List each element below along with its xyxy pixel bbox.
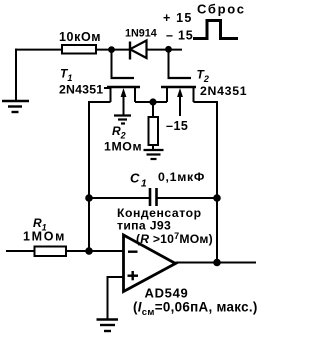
resistor R 10кОм bbox=[62, 45, 96, 54]
diode D1 1N914 bbox=[130, 41, 147, 60]
transistor T1 2N4351 bbox=[107, 78, 140, 115]
label dash pointer to T1 bbox=[104, 87, 110, 89]
svg-text:Сброс: Сброс bbox=[197, 2, 246, 17]
wire: T2 gate lead bbox=[168, 49, 170, 77]
svg-text:1МОм: 1МОм bbox=[23, 230, 66, 244]
ground (op-amp + input) bbox=[97, 320, 119, 332]
label 2N4351 (T1) bbox=[59, 83, 103, 97]
label 1МОм (R1) bbox=[23, 230, 66, 244]
label +15 bbox=[163, 11, 192, 25]
wire: input bbox=[6, 250, 35, 252]
note: типа J93 bbox=[117, 219, 171, 233]
svg-text:2N4351: 2N4351 bbox=[200, 84, 247, 98]
svg-text:– 15: – 15 bbox=[166, 29, 194, 43]
label C1 bbox=[130, 171, 147, 190]
note: (R>10^7 МОм) bbox=[136, 231, 213, 246]
label AD549 bbox=[145, 286, 189, 301]
svg-text:типа J93: типа J93 bbox=[117, 219, 171, 233]
node: T1 drain / T2 source / R2 top bbox=[149, 98, 156, 105]
wire: T1 gate lead bbox=[111, 50, 113, 77]
label R1 bbox=[33, 216, 47, 233]
node: T2 gate junction bbox=[165, 46, 172, 53]
svg-text:2N4351: 2N4351 bbox=[59, 83, 103, 97]
svg-text:1N914: 1N914 bbox=[125, 28, 157, 40]
ground (top left) bbox=[2, 101, 29, 112]
resistor R2 1МОм bbox=[149, 102, 159, 150]
wire: left drop to ground bbox=[15, 49, 17, 100]
wire: right rail bbox=[216, 101, 218, 263]
wire: node to C1 left plate bbox=[89, 197, 149, 199]
wire: T2 drain to right rail bbox=[194, 101, 218, 103]
wire: left rail (summing node) bbox=[88, 101, 90, 251]
svg-text:(R >107МОм): (R >107МОм) bbox=[136, 231, 213, 246]
svg-text:(Iсм=0,06пА, макс.): (Iсм=0,06пА, макс.) bbox=[133, 300, 258, 318]
svg-text:T1: T1 bbox=[60, 67, 72, 84]
wire: R1 to inverting input bbox=[66, 250, 124, 252]
wire: non-inverting input bbox=[108, 277, 124, 319]
svg-text:+ 15: + 15 bbox=[163, 11, 192, 25]
resistor R1 1МОм bbox=[35, 247, 67, 257]
value label 1N914 bbox=[125, 28, 157, 40]
node: T1 gate junction bbox=[108, 46, 115, 53]
value label 10кОм bbox=[59, 30, 101, 44]
ground (below R2) bbox=[144, 150, 164, 159]
wire: output bbox=[176, 262, 257, 264]
label Сброс bbox=[197, 2, 246, 17]
svg-text:–15: –15 bbox=[166, 119, 188, 133]
node: C1 left junction bbox=[85, 194, 93, 202]
wire: C1 right plate to right rail bbox=[157, 197, 218, 199]
label R2 bbox=[112, 124, 126, 141]
svg-text:C1: C1 bbox=[130, 171, 147, 190]
svg-text:T2: T2 bbox=[197, 68, 209, 85]
svg-text:0,1мкФ: 0,1мкФ bbox=[158, 170, 205, 184]
wire: diode to reset line bbox=[147, 49, 183, 51]
wire: T1 drain to node bbox=[135, 101, 153, 103]
svg-text:1МОм: 1МОм bbox=[104, 140, 142, 154]
node: output / feedback junction bbox=[213, 259, 221, 267]
svg-text:AD549: AD549 bbox=[145, 286, 189, 301]
svg-text:10кОм: 10кОм bbox=[59, 30, 101, 44]
label T2 bbox=[197, 68, 209, 85]
wire: resistor to diode bbox=[96, 49, 130, 51]
label -15 (T2 substrate) bbox=[166, 119, 188, 133]
transistor T2 2N4351 bbox=[161, 78, 196, 116]
wire: input to 10k resistor bbox=[15, 49, 62, 51]
op-amp U1 AD549 bbox=[124, 235, 176, 292]
value label 0,1мкФ bbox=[158, 170, 205, 184]
label T1 bbox=[60, 67, 72, 84]
svg-text:R2: R2 bbox=[112, 124, 126, 141]
label -15 (pulse low level) bbox=[166, 29, 194, 43]
ground (T1 substrate) bbox=[114, 116, 131, 124]
capacitor C1 0,1мкФ bbox=[150, 188, 157, 206]
label 1МОм (R2) bbox=[104, 140, 142, 154]
label Iсм spec bbox=[133, 300, 258, 318]
node: inverting input junction bbox=[85, 247, 93, 255]
wire: node to T2 source bbox=[153, 101, 167, 103]
node: C1 right junction bbox=[213, 194, 221, 202]
wire: T1 source to left rail bbox=[89, 101, 111, 103]
note: Конденсатор bbox=[117, 206, 202, 220]
reset pulse waveform bbox=[193, 21, 238, 39]
label 2N4351 (T2) bbox=[200, 84, 247, 98]
